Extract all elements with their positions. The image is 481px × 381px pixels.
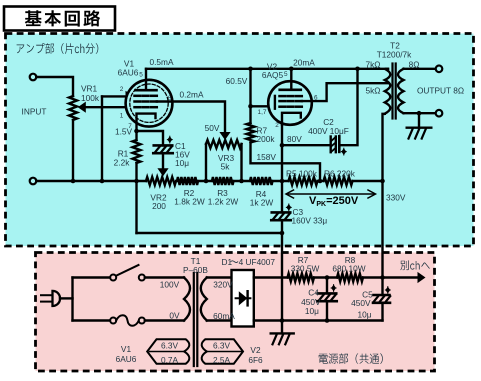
label 電源部（共通） (319, 353, 383, 364)
svg-text:5kΩ: 5kΩ (366, 85, 381, 95)
svg-text:1.2k 2W: 1.2k 2W (208, 196, 239, 206)
wire R6 to 330V riser (353, 180, 383, 182)
potentiometer VR1 100k (69, 96, 77, 120)
svg-text:320V: 320V (213, 279, 233, 289)
svg-text:0V: 0V (169, 310, 180, 320)
resistor R8 680 10W (337, 274, 363, 282)
wire C1 to VR2 wiper arrow (162, 153, 164, 170)
svg-text:T1200/7k: T1200/7k (377, 50, 412, 60)
capacitor C4 450V 10u (326, 278, 328, 294)
wire V2 cathode/grid riser x=282 (281, 125, 283, 182)
wire V1 pin1 stub (102, 106, 129, 108)
label 別chへ (400, 260, 429, 270)
svg-text:450V: 450V (351, 298, 371, 308)
wire R7 bottom (158V) to R5/R6 junction (251, 143, 321, 182)
svg-text:1.8k 2W: 1.8k 2W (174, 196, 205, 206)
svg-text:6F6: 6F6 (248, 355, 263, 365)
svg-text:10μ: 10μ (305, 306, 319, 316)
transformer T1 HT secondary 320V (201, 278, 207, 321)
capacitor C5 450V 10u (381, 278, 383, 296)
svg-text:200: 200 (152, 201, 166, 211)
svg-text:60.5V: 60.5V (226, 76, 248, 86)
transformer T1 P-60B primary (184, 278, 190, 321)
svg-text:4 UF4007: 4 UF4007 (239, 257, 276, 267)
resistor R5 100k (289, 177, 318, 185)
svg-text:2.2k: 2.2k (114, 158, 131, 168)
svg-text:330 5W: 330 5W (291, 264, 320, 274)
svg-text:400V 10μF: 400V 10μF (308, 126, 349, 136)
svg-text:8Ω: 8Ω (409, 59, 420, 69)
svg-text:6: 6 (314, 95, 318, 102)
junction node on bus x=320 (318, 179, 323, 184)
junction node on bus x=382.5 (380, 179, 385, 184)
svg-text:1.5V: 1.5V (115, 127, 133, 137)
svg-text:0.2mA: 0.2mA (180, 89, 204, 99)
svg-text:2.5A: 2.5A (213, 355, 231, 365)
resistor R7 330 5W (288, 274, 315, 282)
vacuum tube V2 6AQ5 (268, 69, 312, 125)
potentiometer VR3 5k (205, 144, 207, 181)
transformer T2 secondary (398, 69, 404, 113)
output terminal top (436, 66, 443, 73)
transformer T2 T1200/7k primary (385, 69, 391, 114)
svg-text:1: 1 (120, 113, 124, 120)
svg-text:6.3V: 6.3V (213, 340, 231, 350)
svg-text:0.5mA: 0.5mA (150, 57, 174, 67)
wire C2 to B+ (340, 69, 358, 145)
junction node on bus x=73 (71, 179, 76, 184)
svg-text:60mA: 60mA (213, 311, 235, 321)
svg-text:160V 33μ: 160V 33μ (292, 216, 328, 226)
amp section background (cyan) (6, 34, 474, 247)
svg-text:200k: 200k (257, 134, 276, 144)
capacitor C3 160V 33u (281, 181, 283, 212)
svg-text:5: 5 (139, 72, 143, 79)
svg-text:10μ: 10μ (357, 310, 371, 320)
svg-text:100k: 100k (81, 93, 100, 103)
svg-text:7kΩ: 7kΩ (366, 59, 381, 69)
wire R4-R5 (273, 180, 289, 182)
heater winding 6.3V 0.7A (banner) (147, 339, 189, 363)
junction node on bus x=136.5 (134, 179, 139, 184)
svg-text:1,7: 1,7 (258, 109, 267, 116)
svg-text:2: 2 (120, 86, 124, 93)
svg-text:5: 5 (284, 71, 288, 78)
power supply section background (pink) (36, 253, 435, 372)
svg-text:158V: 158V (257, 152, 277, 162)
title box 基本回路 (4, 7, 115, 31)
svg-text:10μ: 10μ (175, 158, 189, 168)
T1 core (193, 273, 195, 366)
input terminal (bottom) (30, 178, 37, 185)
input terminal (top) (30, 74, 37, 81)
svg-text:6: 6 (168, 95, 172, 102)
wire grid riser x=102 (101, 96, 103, 181)
wire secondary to output terminals (404, 68, 436, 70)
resistor R6 220k (324, 177, 353, 185)
wire R5-R6 (318, 180, 324, 182)
svg-text:6.3V: 6.3V (161, 340, 179, 350)
wire R2-R3 (198, 180, 212, 182)
svg-text:P–60B: P–60B (183, 265, 208, 275)
junction node on bus x=282 (280, 179, 285, 184)
output terminal bottom (436, 110, 443, 117)
junction node on bus x=206 (204, 179, 209, 184)
svg-text:5k: 5k (221, 161, 231, 171)
svg-text:50V: 50V (205, 123, 220, 133)
wire primary bottom to 330V riser (383, 114, 385, 181)
wire/arrow to other channel 別chへ (383, 276, 420, 278)
capacitor C1 16V 10u (137, 131, 164, 145)
dimension arrow Vpk=250V (286, 190, 376, 198)
svg-text:6AQ5: 6AQ5 (262, 70, 284, 80)
fuse (73, 319, 111, 321)
rectifier bridge D1-4 UF4007 (232, 270, 254, 327)
AC plug (41, 295, 53, 301)
ground symbol (PSU) (281, 321, 283, 334)
wire 330V riser into PSU (381, 181, 383, 278)
wire DC+ rail (254, 276, 288, 278)
resistor R3 1.2k 2W (212, 177, 234, 185)
svg-text:R6 220k: R6 220k (324, 168, 356, 178)
VR1 wiper arrow (84, 106, 102, 108)
junction node on bus x=102 (100, 179, 105, 184)
svg-text:6AU6: 6AU6 (116, 354, 137, 364)
wire R1 bottom through bus down to ground link (135, 163, 137, 233)
wire B+ plate line (0.5mA) (146, 68, 388, 70)
resistor R2 1.8k 2W (177, 177, 198, 185)
svg-text:20mA: 20mA (293, 58, 315, 68)
svg-text:2: 2 (275, 122, 279, 129)
wire V1 pin6 (0.2mA) to VR3 arrow (157, 102, 225, 134)
T2 core (391, 64, 393, 119)
wire V2 pin6 to 5k tap (302, 83, 388, 101)
wire ground bus left (36, 180, 146, 182)
wire plate node down to R7 (249, 69, 251, 123)
wire VR1 bottom to ground bus (72, 120, 74, 181)
wire R7-R8 (314, 276, 337, 278)
wire ground link to C3 node (137, 232, 283, 234)
svg-text:V2: V2 (250, 345, 261, 355)
wire DC- (0V) rail (254, 319, 383, 321)
svg-text:6AU6: 6AU6 (118, 67, 139, 77)
label アンプ部（片ch分） (17, 43, 99, 54)
ground symbol (output) (418, 113, 420, 128)
svg-text:OUTPUT 8Ω: OUTPUT 8Ω (417, 86, 464, 96)
wire V1 cathode to R1/C1 junction (134, 129, 139, 134)
junction node on bus x=241.5 (239, 179, 244, 184)
wire R3-R4 (234, 180, 251, 182)
svg-text:80V: 80V (287, 134, 302, 144)
resistor R4 1k 2W (250, 177, 273, 185)
svg-text:INPUT: INPUT (22, 107, 47, 117)
svg-text:680 10W: 680 10W (332, 264, 365, 274)
wire to V1 grid with arrow (102, 95, 127, 97)
svg-text:R5 100k: R5 100k (286, 168, 318, 178)
svg-text:0.7A: 0.7A (161, 355, 179, 365)
resistor R1 2.2k (135, 131, 137, 140)
vacuum tube V1 6AU6 (126, 69, 173, 131)
potentiometer VR2 200 (146, 177, 176, 185)
wire plug split (71, 278, 73, 321)
wire input top to VR1 (36, 77, 73, 96)
svg-text:330V: 330V (386, 192, 406, 202)
svg-text:100V: 100V (160, 279, 180, 289)
wire to V2 pins 1,7 (251, 105, 275, 107)
heater winding 6.3V 2.5A (banner) (202, 339, 243, 363)
svg-text:V1: V1 (121, 344, 132, 354)
switch (73, 276, 111, 278)
capacitor C2 400V 10uF (282, 144, 330, 146)
svg-text:1k 2W: 1k 2W (250, 197, 274, 207)
svg-text:C4: C4 (308, 287, 319, 297)
resistor R7 200k (247, 123, 255, 143)
